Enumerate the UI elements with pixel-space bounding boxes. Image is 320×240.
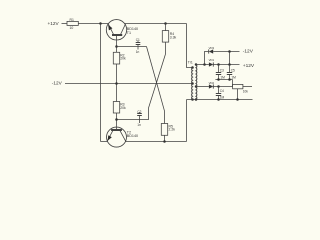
wire diagonal B [117,54,166,120]
svg-text:10k: 10k [243,90,249,94]
svg-text:C1: C1 [136,38,140,42]
node branch to row1 [203,63,206,66]
resistor R3 20k [113,102,126,127]
svg-text:BD140: BD140 [127,134,138,138]
wire -12V rail [65,83,193,85]
transistor T2 BD140 [107,127,139,147]
node junction top-left [99,22,102,25]
node C5 top [228,63,231,66]
svg-text:C4: C4 [220,89,224,93]
svg-text:1M: 1M [231,76,236,80]
svg-text:VD1: VD1 [209,58,215,62]
node junction R5 bottom [163,140,166,143]
wire R1 to T1 emitter [78,23,108,25]
capacitor C4 1M [216,87,225,100]
node C5 bottom [228,78,231,81]
svg-text:20k: 20k [120,106,126,110]
svg-text:20k: 20k [120,57,126,61]
svg-text:C3: C3 [220,68,224,72]
svg-text:VD2: VD2 [209,81,215,85]
svg-text:10: 10 [70,26,74,30]
wire diagonal A [147,47,165,124]
wire top-right corner down to transformer [187,24,193,68]
svg-text:R1: R1 [70,18,74,22]
svg-text:C2: C2 [137,110,141,114]
svg-text:-12V: -12V [52,81,63,86]
node R6 tap bottom [236,98,239,101]
capacitor C2 1n [137,110,142,127]
wire branch up to row1 [205,52,209,65]
diode VD3 [209,46,215,54]
node C4 top [217,85,220,88]
resistor R6 10k [233,84,252,99]
svg-text:1n: 1n [136,50,140,54]
svg-text:+12V: +12V [243,63,255,69]
wire bottom rail [187,99,253,101]
node C4 bottom [217,98,220,101]
wire R2 to R3 [116,64,118,102]
svg-text:1M: 1M [220,76,225,80]
capacitor C1 1n [136,38,141,54]
wire VD3 to -12V [213,51,239,53]
diode VD1 [209,58,215,67]
resistor R4 3.3k [162,24,176,55]
node C3 bottom [217,78,220,81]
node -12V output label [243,49,254,55]
diode VD2 [209,81,215,89]
transistor T1 BD140 [106,20,138,53]
wire mid rail [215,79,232,81]
wire secondary mid row [196,86,209,88]
svg-text:VD3: VD3 [209,46,215,50]
capacitor C5 1M [227,65,236,80]
svg-text:C5: C5 [231,68,235,72]
wire row1 down to row2 [229,52,231,65]
capacitor C3 1M [216,65,225,80]
svg-text:T1: T1 [127,31,131,35]
node +12V supply label [48,21,60,26]
wire mid rail corner down [232,80,234,87]
svg-text:1M: 1M [220,95,225,99]
wire VD1 to +12V [213,64,239,66]
resistor R2 20k [113,52,126,64]
transformer Tr1 [188,60,197,100]
node -12V supply label [52,81,63,86]
node junction R4 top [164,22,167,25]
node +12V output label [243,63,255,69]
wire VD2 to R6 [213,86,232,88]
wire +12V to R1 [62,23,68,25]
svg-text:3.3k: 3.3k [170,35,177,39]
svg-text:1n: 1n [137,123,141,127]
wire T1 collector to right [125,23,187,25]
node C3 top [217,63,220,66]
svg-text:-12V: -12V [243,49,254,55]
node T1 base [115,45,118,48]
wire T2 emitter left [101,141,108,143]
wire T1 base node to C1 corner [117,46,147,48]
wire left vertical rail [100,24,102,142]
node T2 base [115,118,118,121]
svg-text:+12V: +12V [48,21,60,26]
svg-text:2.2k: 2.2k [169,128,176,132]
svg-text:Tr1: Tr1 [188,60,193,64]
wire secondary top row [196,64,209,66]
node rail to base resistors [115,82,118,85]
resistor R1 [67,18,78,30]
wire T2 collector to right [125,141,186,143]
node row1 junction [228,50,231,53]
wire bottom-right corner up to rail [186,100,188,142]
resistor R5 2.2k [161,124,175,142]
